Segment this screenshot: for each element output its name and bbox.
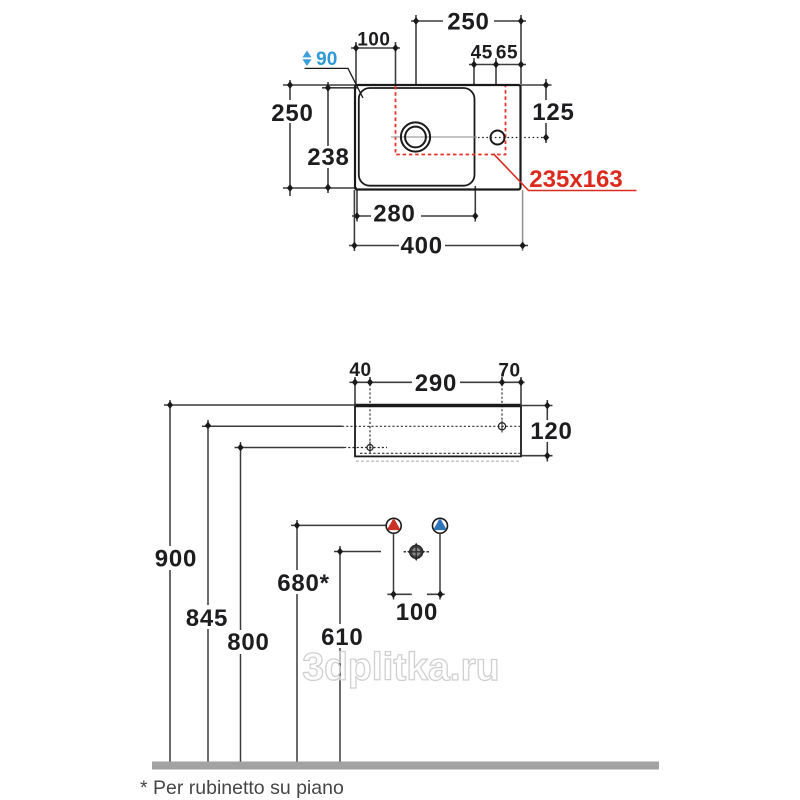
svg-text:800: 800: [227, 629, 269, 656]
svg-text:290: 290: [415, 370, 457, 397]
svg-text:120: 120: [530, 418, 572, 445]
svg-text:90: 90: [316, 49, 337, 70]
svg-text:238: 238: [307, 144, 349, 171]
svg-text:610: 610: [321, 624, 363, 651]
svg-text:235x163: 235x163: [529, 166, 622, 193]
svg-text:250: 250: [447, 9, 489, 36]
svg-text:280: 280: [373, 201, 415, 228]
svg-text:900: 900: [155, 546, 197, 573]
svg-text:3dplitka.ru: 3dplitka.ru: [302, 646, 499, 689]
svg-text:250: 250: [271, 100, 313, 127]
svg-text:100: 100: [357, 30, 390, 51]
svg-text:400: 400: [400, 233, 442, 260]
svg-text:845: 845: [186, 605, 228, 632]
svg-text:100: 100: [396, 599, 438, 626]
svg-text:680*: 680*: [277, 570, 330, 597]
svg-text:45: 45: [471, 43, 493, 64]
svg-text:125: 125: [532, 99, 574, 126]
svg-text:70: 70: [498, 361, 520, 382]
svg-text:40: 40: [349, 360, 371, 381]
svg-text:65: 65: [496, 43, 518, 64]
svg-text:* Per rubinetto su piano: * Per rubinetto su piano: [140, 777, 344, 799]
